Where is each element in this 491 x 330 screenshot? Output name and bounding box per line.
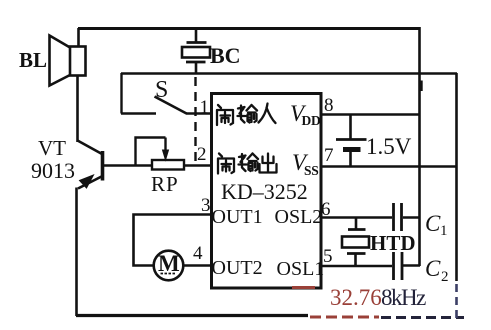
piezo buzzer BC (182, 28, 210, 73)
wire VSS vertical dashed bottom (455, 284, 458, 318)
wire VSS right vertical (455, 73, 458, 281)
svg-text:7: 7 (324, 145, 334, 166)
wire top VDD rail (78, 27, 419, 30)
svg-text:2: 2 (197, 144, 207, 165)
label C2 (425, 256, 449, 285)
motor M1 (154, 251, 184, 281)
svg-text:OSL2: OSL2 (275, 206, 323, 228)
svg-text:1: 1 (440, 223, 448, 239)
resistor RP (rheostat) (136, 138, 185, 170)
label VDD (290, 101, 321, 128)
wire motor to pin4 (184, 264, 213, 267)
wire speaker top stub (77, 28, 80, 47)
svg-text:DD: DD (302, 113, 321, 128)
label VT 9013 (31, 136, 75, 183)
wire base to RP (103, 164, 152, 167)
svg-text:1.5V: 1.5V (366, 134, 412, 159)
crystal HTD (342, 217, 369, 266)
svg-text:VT: VT (38, 136, 66, 160)
svg-text:M: M (158, 251, 180, 276)
capacitor C1 (394, 203, 421, 231)
label 32.768kHz (330, 285, 426, 310)
svg-text:32.76: 32.76 (330, 285, 382, 310)
svg-text:C: C (425, 256, 441, 281)
wire switch top rail (to VSS) (121, 72, 457, 75)
wire RP to pin2 (184, 164, 212, 167)
svg-text:1: 1 (200, 97, 210, 118)
ink blob on VDD vertical (420, 81, 423, 92)
svg-text:KD–3252: KD–3252 (221, 179, 308, 204)
wire pin3 loop to motor (134, 215, 212, 266)
svg-text:5: 5 (323, 246, 333, 267)
label 闹输出 (alarm output) (218, 154, 277, 174)
wire pin8 to VDD (321, 113, 420, 116)
wire bottom dashed dark segment (381, 316, 464, 319)
IC U1 KD-3252 box (212, 94, 322, 289)
svg-text:2: 2 (441, 269, 449, 285)
svg-text:OSL1: OSL1 (277, 258, 325, 280)
svg-text:OUT1: OUT1 (212, 206, 263, 228)
speaker BL (50, 36, 86, 86)
switch S (121, 73, 187, 114)
svg-text:4: 4 (193, 243, 203, 264)
svg-text:RP: RP (151, 172, 179, 196)
svg-text:OUT2: OUT2 (212, 257, 263, 279)
svg-text:HTD: HTD (370, 231, 416, 255)
wire speaker bottom to collector (76, 76, 79, 143)
red artifact on IC bottom (292, 286, 315, 289)
label VSS (292, 150, 318, 178)
svg-text:8: 8 (324, 95, 334, 116)
capacitor C2 (394, 252, 421, 280)
wire emitter vertical left rail (75, 188, 78, 317)
svg-text:C: C (425, 211, 441, 236)
battery GB 1.5V (336, 114, 367, 167)
wire dashed BC to pin2 (194, 77, 196, 166)
wire pin5 to C2 (321, 265, 392, 268)
svg-text:3: 3 (201, 195, 211, 216)
wire bottom dashed red segment (310, 316, 379, 319)
wire pin1 (186, 112, 212, 115)
svg-text:BL: BL (19, 48, 47, 72)
wire bottom rail (76, 314, 308, 317)
label C1 (425, 211, 448, 239)
wire pin7 to VSS vertical (321, 165, 457, 168)
svg-text:S: S (155, 77, 168, 103)
svg-text:9013: 9013 (31, 158, 75, 183)
svg-text:8kHz: 8kHz (381, 285, 426, 310)
wire pin6 to C1 (321, 216, 392, 219)
svg-text:SS: SS (304, 163, 318, 178)
wire VDD right vertical (418, 27, 421, 266)
svg-text:BC: BC (210, 43, 241, 68)
label 闹输入 (alarm input) (217, 104, 276, 126)
transistor VT1 9013 (78, 141, 103, 189)
